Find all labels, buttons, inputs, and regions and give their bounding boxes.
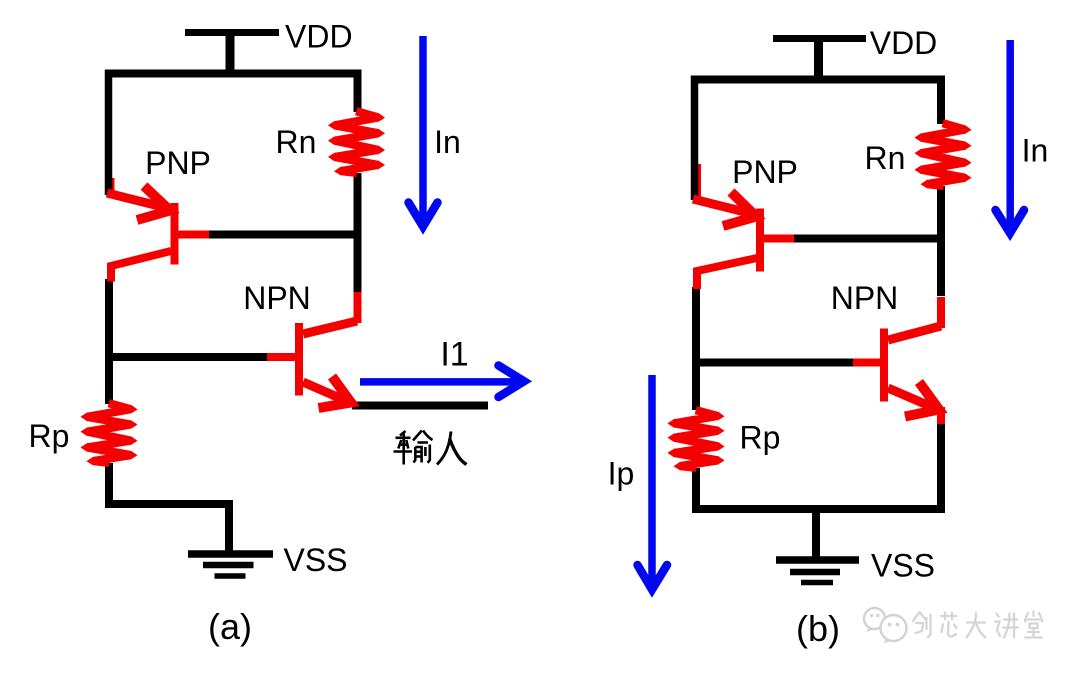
transistor NPN a [267,292,358,408]
大 [967,614,986,638]
wire right upper b [937,76,945,125]
讲 [995,614,1018,638]
svg-text:VSS: VSS [283,542,347,578]
svg-text:In: In [1022,133,1049,169]
svg-text:VSS: VSS [871,548,935,584]
堂 [1025,612,1042,638]
svg-text:PNP: PNP [145,145,211,181]
watermark text 创芯大讲堂 [913,612,1042,638]
arrow In b [996,40,1025,233]
wire top b [692,76,945,84]
resistor Rp a [81,400,137,467]
svg-text:(b): (b) [796,608,840,649]
arrow Ip b [638,375,668,590]
wire npn-base b [692,359,856,367]
wire right mid b [937,186,945,296]
wire bottom b [692,505,945,513]
输入 text [394,431,467,465]
resistor Rn b [915,120,971,190]
wire left upper b [691,76,699,201]
wire left bottom b [692,468,700,513]
svg-text:PNP: PNP [732,154,798,190]
wire npn-base a [105,353,270,361]
wire emitter sliver b [696,164,701,202]
ground a [188,554,273,576]
watermark logo [864,608,907,644]
wire emitter sliver a [110,178,115,196]
wire vss stem a [225,504,233,553]
char shu: radical che [400,431,406,436]
svg-text:Rp: Rp [29,418,70,454]
wire right mid a [354,173,362,296]
wire vss stem b [812,509,820,558]
arrow I1 a [360,366,524,398]
arrow In a [409,36,438,227]
char shu: right yu [413,431,422,441]
wire output a [352,402,488,410]
labels a [29,19,469,648]
transistor PNP a [107,186,209,282]
创 [913,613,931,638]
labels b [608,25,1049,649]
svg-text:I1: I1 [440,336,468,374]
芯 [941,613,957,637]
svg-text:Rp: Rp [740,420,781,456]
svg-text:VDD: VDD [870,25,938,61]
wire left lower a [105,279,113,404]
svg-text:NPN: NPN [831,280,899,316]
ground b [776,560,859,583]
wire base-output a [206,231,361,239]
wire bottom a [105,500,233,508]
resistor Rp b [668,407,724,472]
char ru [437,432,451,465]
wire left bottom a [105,463,113,508]
wire right lower b [937,421,945,513]
VDD symbol a [185,33,279,74]
svg-text:VDD: VDD [285,19,353,55]
svg-text:NPN: NPN [243,280,311,316]
wire top a [105,70,361,78]
svg-text:In: In [434,124,461,160]
svg-text:Ip: Ip [608,456,635,492]
wire left lower b [692,287,700,410]
transistor PNP b [693,192,794,289]
resistor Rn a [329,108,385,177]
svg-text:(a): (a) [208,606,252,647]
svg-text:Rn: Rn [276,124,317,160]
VDD symbol b [773,39,866,80]
svg-text:Rn: Rn [865,140,906,176]
wire left upper a [105,70,113,196]
wire base-output b [791,235,945,243]
wire right upper a [354,70,362,113]
transistor NPN b [853,297,941,424]
